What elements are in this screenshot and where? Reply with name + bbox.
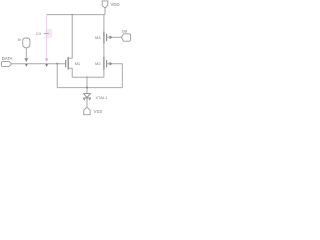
node source rail center: [86, 76, 88, 78]
svg-text:M3: M3: [95, 35, 101, 40]
wire bottom rail: [57, 87, 122, 89]
svg-text:DATA: DATA: [2, 56, 13, 61]
transistor M1: [66, 15, 81, 77]
capacitor C4 plates: [44, 33, 49, 35]
node bottom rail junction: [86, 87, 88, 89]
wire right branch vertical: [103, 15, 105, 77]
svg-text:M1: M1: [75, 61, 81, 66]
svg-text:DB: DB: [122, 29, 128, 34]
transistor M3 (upper right): [95, 31, 113, 43]
net wire (pink) from rail down to DATA line: [36, 15, 52, 67]
wedge below wire: [25, 64, 28, 67]
input port DATA: [1, 56, 12, 66]
probe / source symbol S1: [18, 38, 30, 67]
pink arrowhead: [45, 58, 49, 62]
svg-text:VDD: VDD: [111, 2, 120, 7]
wire left drop to bottom rail: [56, 64, 58, 88]
svg-text:5r: 5r: [18, 38, 22, 42]
output port bit: [121, 29, 130, 42]
wire M3 gate to bit port: [113, 36, 121, 38]
power flag VSS: [84, 107, 103, 115]
wire source rail: [72, 76, 104, 78]
diode D1: [83, 94, 108, 101]
node junction on DATA line: [56, 63, 58, 65]
wire center drop: [86, 77, 88, 93]
top VDD rail wire: [47, 14, 105, 16]
wire M2 gate to right riser: [113, 64, 122, 88]
node top rail left branch: [71, 14, 73, 16]
wire diode to VSS: [86, 98, 88, 107]
svg-text:VSS: VSS: [94, 109, 103, 114]
power flag VDD: [102, 1, 119, 15]
transistor M2 (lower right): [95, 57, 113, 70]
svg-text:C4: C4: [36, 31, 42, 36]
svg-text:M2: M2: [95, 61, 101, 66]
gray arrowhead onto wire: [24, 58, 28, 62]
svg-text:XTAL1: XTAL1: [95, 95, 108, 100]
dark wedge below wire: [45, 64, 48, 67]
wire DATA line: [12, 63, 66, 65]
